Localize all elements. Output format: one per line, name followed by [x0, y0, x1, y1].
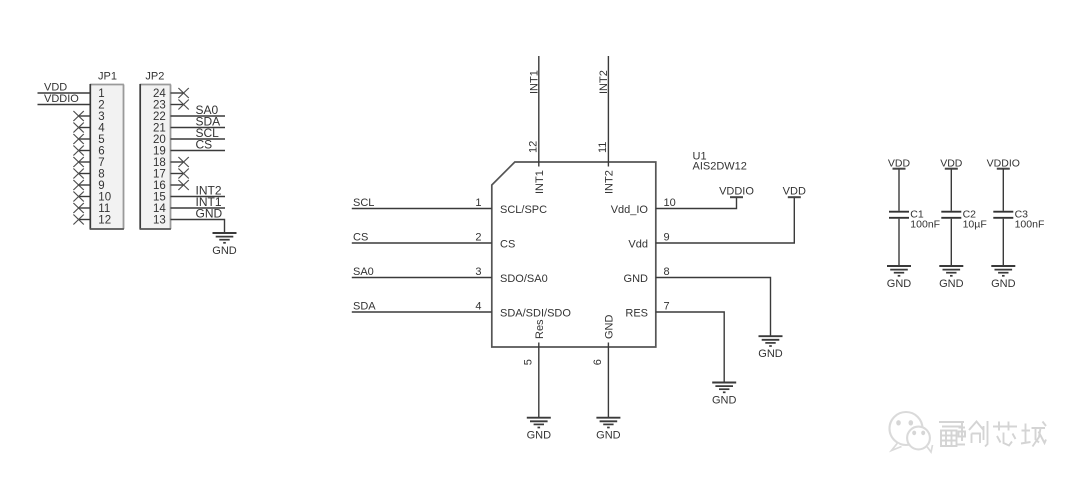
svg-text:19: 19	[153, 146, 166, 158]
svg-text:INT2: INT2	[604, 170, 616, 194]
svg-text:18: 18	[153, 157, 166, 169]
svg-text:2: 2	[98, 100, 104, 112]
svg-text:100nF: 100nF	[910, 219, 940, 231]
svg-text:Vdd: Vdd	[628, 238, 648, 250]
svg-text:CS: CS	[353, 232, 368, 244]
svg-text:GND: GND	[624, 273, 649, 285]
svg-text:12: 12	[527, 141, 539, 153]
svg-text:GND: GND	[604, 315, 616, 340]
wire net SDA to U1 pin 4	[352, 311, 492, 313]
svg-text:SDO/SA0: SDO/SA0	[500, 273, 548, 285]
ground JP2 pin 13	[212, 233, 237, 257]
power symbol VDD (C1)	[888, 157, 911, 169]
svg-text:22: 22	[153, 111, 166, 123]
svg-text:GND: GND	[596, 430, 621, 442]
no-connect JP1 pin 12	[73, 215, 90, 225]
svg-text:Vdd_IO: Vdd_IO	[611, 204, 649, 216]
svg-text:SCL: SCL	[353, 197, 374, 209]
svg-text:2: 2	[475, 232, 481, 244]
svg-text:17: 17	[153, 169, 166, 181]
connector JP2	[140, 71, 171, 230]
svg-text:16: 16	[153, 180, 166, 192]
svg-text:11: 11	[597, 142, 609, 153]
wire U1 pin 10 to VDDIO	[656, 197, 737, 208]
wire JP2 pin 21 net SDA	[171, 127, 226, 129]
svg-text:1: 1	[475, 197, 481, 209]
svg-text:INT1: INT1	[534, 170, 546, 194]
no-connect JP2 pin 17	[171, 169, 189, 179]
svg-text:9: 9	[98, 180, 104, 192]
wire VDDIO to C3	[1002, 169, 1004, 211]
watermark text (rong chuang xin cheng approximation)	[939, 421, 1047, 448]
svg-text:3: 3	[98, 111, 104, 123]
no-connect JP2 pin 23	[171, 100, 189, 110]
svg-text:VDD: VDD	[888, 157, 911, 169]
power symbol VDDIO	[719, 185, 754, 197]
no-connect JP1 pin 10	[73, 192, 90, 202]
svg-text:5: 5	[98, 134, 104, 146]
wire U1 pin 8 to ground	[656, 278, 771, 337]
no-connect JP1 pin 9	[73, 180, 90, 190]
no-connect JP1 pin 8	[73, 169, 90, 179]
no-connect JP1 pin 6	[73, 146, 90, 156]
wire JP2 pin 14 net INT1	[171, 207, 226, 209]
svg-text:VDD: VDD	[940, 157, 963, 169]
op-amp? no: IC U1 AIS2DW12 body	[492, 162, 656, 347]
svg-text:Res: Res	[534, 319, 546, 339]
wire U1 pin 6 to ground	[607, 343, 609, 418]
svg-text:JP1: JP1	[98, 71, 117, 83]
svg-text:CS: CS	[196, 138, 213, 152]
ground C1	[887, 266, 912, 290]
wire U1 pin 7 to ground	[656, 312, 724, 383]
wire net SA0 to U1 pin 3	[352, 277, 492, 279]
ground U1 pin 6	[596, 418, 621, 442]
wire U1 pin 9 to VDD	[656, 197, 795, 243]
svg-text:6: 6	[592, 359, 604, 365]
svg-text:GND: GND	[212, 245, 237, 257]
capacitor C3	[993, 209, 1044, 231]
wire JP2 pin 20 net SCL	[171, 138, 226, 140]
svg-text:JP2: JP2	[145, 71, 164, 83]
svg-text:24: 24	[153, 88, 166, 100]
svg-text:7: 7	[98, 157, 104, 169]
svg-text:10µF: 10µF	[963, 219, 987, 231]
ground C3	[991, 266, 1016, 290]
wire net SCL to U1 pin 1	[352, 208, 492, 210]
svg-text:GND: GND	[991, 278, 1016, 290]
svg-text:INT1: INT1	[528, 70, 540, 94]
ground U1 pin 8	[758, 336, 783, 360]
svg-text:GND: GND	[887, 278, 912, 290]
wire net INT1 to U1 pin 12	[538, 56, 540, 167]
svg-text:20: 20	[153, 134, 166, 146]
watermark logo (light gray chat bubbles)	[890, 412, 933, 452]
ground U1 pin 7	[712, 383, 737, 407]
capacitor C1	[889, 209, 940, 231]
wire C1 to ground	[898, 219, 900, 266]
svg-text:14: 14	[153, 203, 166, 215]
capacitor C2	[941, 209, 986, 231]
wire net INT2 to U1 pin 11	[607, 56, 609, 167]
wire JP2 pin 13 to ground	[171, 220, 225, 234]
svg-text:12: 12	[98, 215, 111, 227]
wire U1 pin 5 to ground	[538, 343, 540, 418]
svg-text:7: 7	[664, 301, 670, 313]
svg-text:10: 10	[98, 192, 111, 204]
svg-text:13: 13	[153, 215, 166, 227]
wire net CS to U1 pin 2	[352, 242, 492, 244]
svg-text:VDD: VDD	[44, 82, 67, 94]
svg-text:GND: GND	[712, 395, 737, 407]
svg-text:GND: GND	[527, 430, 552, 442]
svg-text:VDDIO: VDDIO	[719, 185, 754, 197]
svg-text:SA0: SA0	[353, 266, 374, 278]
svg-text:4: 4	[475, 301, 481, 313]
ground U1 pin 5	[527, 418, 552, 442]
svg-text:8: 8	[664, 266, 670, 278]
no-connect JP2 pin 24	[171, 88, 189, 98]
svg-text:SCL/SPC: SCL/SPC	[500, 204, 547, 216]
svg-text:VDD: VDD	[783, 185, 806, 197]
svg-text:SDA/SDI/SDO: SDA/SDI/SDO	[500, 307, 571, 319]
svg-text:23: 23	[153, 100, 166, 112]
wire C3 to ground	[1002, 219, 1004, 266]
svg-text:RES: RES	[625, 307, 648, 319]
svg-text:9: 9	[664, 232, 670, 244]
no-connect JP1 pin 4	[73, 123, 90, 133]
power symbol VDD	[783, 185, 806, 197]
svg-text:INT2: INT2	[598, 70, 610, 94]
wire JP2 pin 19 net CS	[171, 150, 226, 152]
svg-text:8: 8	[98, 169, 104, 181]
no-connect JP1 pin 3	[73, 111, 90, 121]
no-connect JP2 pin 18	[171, 157, 189, 167]
svg-text:11: 11	[98, 203, 110, 215]
no-connect JP1 pin 5	[73, 134, 90, 144]
no-connect JP1 pin 7	[73, 157, 90, 167]
svg-text:5: 5	[523, 359, 535, 365]
ground C2	[939, 266, 964, 290]
connector JP1	[90, 71, 124, 230]
svg-text:10: 10	[664, 197, 676, 209]
no-connect JP2 pin 16	[171, 180, 189, 190]
wire JP2 pin 22 net SA0	[171, 115, 226, 117]
wire VDDIO to JP1 pin 2	[38, 104, 91, 106]
svg-text:1: 1	[98, 88, 104, 100]
svg-text:6: 6	[98, 146, 104, 158]
svg-text:SDA: SDA	[353, 301, 376, 313]
wire VDD to C1	[898, 169, 900, 211]
power symbol VDD (C2)	[940, 157, 963, 169]
svg-text:15: 15	[153, 192, 166, 204]
svg-text:GND: GND	[939, 278, 964, 290]
svg-text:100nF: 100nF	[1015, 219, 1045, 231]
svg-text:3: 3	[475, 266, 481, 278]
svg-text:4: 4	[98, 123, 105, 135]
wire VDD to JP1 pin 1	[38, 92, 91, 94]
svg-text:AIS2DW12: AIS2DW12	[693, 161, 747, 173]
svg-text:CS: CS	[500, 238, 515, 250]
no-connect JP1 pin 11	[73, 203, 90, 213]
svg-text:VDDIO: VDDIO	[987, 157, 1020, 169]
wire VDD to C2	[950, 169, 952, 211]
wire C2 to ground	[950, 219, 952, 266]
svg-text:GND: GND	[758, 348, 783, 360]
svg-text:GND: GND	[196, 207, 223, 221]
wire JP2 pin 15 net INT2	[171, 196, 226, 198]
svg-text:21: 21	[153, 123, 166, 135]
svg-text:VDDIO: VDDIO	[44, 93, 79, 105]
power symbol VDDIO (C3)	[987, 157, 1020, 169]
